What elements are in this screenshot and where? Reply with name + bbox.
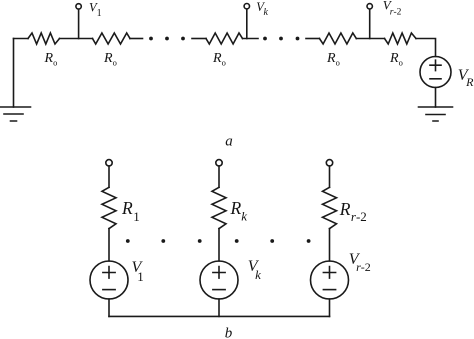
- terminal circle b3: [326, 160, 332, 166]
- wire R5 to source VR: [416, 39, 436, 57]
- node Vk stub: [246, 9, 248, 38]
- node Vr-2 stub: [369, 9, 371, 38]
- wire b2 source to bottom: [218, 299, 220, 316]
- wire R4 to R5 through node Vr-2: [356, 38, 384, 40]
- ellipsis dots top group 2: [263, 37, 299, 41]
- wire top-left horizontal: [14, 38, 29, 40]
- svg-text:V1: V1: [89, 1, 102, 19]
- voltage source Vr-2: [311, 261, 349, 299]
- voltage source Vk: [200, 261, 238, 299]
- wire R1 to R2 through node V1: [60, 38, 93, 40]
- resistor R_1: [102, 187, 116, 228]
- ground right: [419, 107, 453, 121]
- terminal circle b1: [106, 160, 112, 166]
- svg-text:Ro: Ro: [44, 51, 58, 68]
- svg-text:a: a: [225, 134, 233, 150]
- svg-text:Ro: Ro: [389, 51, 403, 68]
- wire b1 source to bottom: [108, 299, 110, 316]
- ground left: [0, 107, 31, 121]
- svg-text:VR: VR: [458, 67, 474, 89]
- wire b3 source to bottom: [329, 299, 331, 316]
- terminal circle Vr-2: [367, 4, 372, 9]
- resistor R2 (Ro): [93, 33, 131, 44]
- wire b2 R to source: [218, 229, 220, 261]
- node V1 stub: [78, 9, 80, 38]
- ellipsis dots top group 1: [149, 37, 185, 41]
- wire b1 R to source: [108, 229, 110, 261]
- ellipsis dots bottom group 2: [235, 239, 311, 243]
- svg-text:V1: V1: [132, 259, 144, 284]
- terminal circle b2: [216, 160, 222, 166]
- svg-text:Ro: Ro: [326, 51, 340, 68]
- wire b3 R to source: [329, 229, 331, 261]
- wire b1 terminal to R1: [108, 166, 110, 187]
- terminal circle V1: [76, 4, 81, 9]
- wire left vertical: [13, 39, 15, 108]
- svg-text:R1: R1: [121, 198, 140, 224]
- svg-text:Ro: Ro: [103, 51, 117, 68]
- resistor R_r-2: [323, 187, 337, 228]
- wire b3 terminal to R: [329, 166, 331, 187]
- resistor R5 (Ro): [385, 33, 417, 44]
- svg-text:Rk: Rk: [230, 198, 248, 223]
- svg-text:Vr-2: Vr-2: [349, 251, 371, 274]
- svg-text:Ro: Ro: [212, 51, 226, 68]
- wire after R2: [130, 38, 143, 40]
- voltage source VR: [420, 57, 451, 88]
- resistor R3 (Ro): [206, 33, 243, 44]
- voltage source V1: [90, 261, 128, 299]
- wire before R4: [306, 38, 319, 40]
- wire R3 past node Vk: [243, 38, 259, 40]
- bottom bus wire: [109, 315, 330, 317]
- resistor R1 (Ro): [28, 33, 60, 44]
- resistor R_k: [212, 187, 226, 228]
- svg-text:Vk: Vk: [256, 0, 268, 18]
- wire before R3: [192, 38, 206, 40]
- svg-text:Vk: Vk: [248, 258, 261, 282]
- terminal circle Vk: [244, 3, 249, 8]
- svg-text:Vr-2: Vr-2: [383, 0, 402, 17]
- resistor R4 (Ro): [319, 33, 356, 44]
- wire VR to ground: [435, 88, 437, 108]
- wire b2 terminal to R: [218, 166, 220, 187]
- svg-text:b: b: [225, 326, 233, 339]
- svg-text:Rr-2: Rr-2: [339, 199, 367, 224]
- ellipsis dots bottom group 1: [126, 239, 202, 243]
